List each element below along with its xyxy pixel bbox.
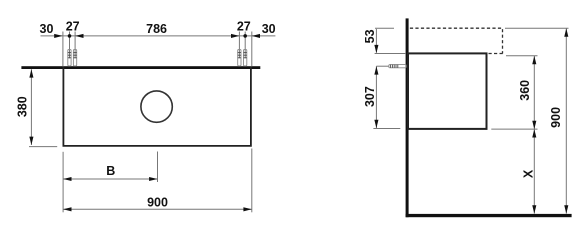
dimension 307 line [375,66,377,128]
dot right screw [243,34,247,38]
drain hole circle [141,91,172,122]
svg-text:307: 307 [363,86,377,107]
svg-text:X: X [521,169,535,178]
svg-text:786: 786 [146,22,167,36]
arrow B right [149,177,157,181]
svg-text:B: B [106,164,115,178]
arrow 360 top [532,56,536,64]
wall anchor [389,65,406,68]
screw right inner [238,49,241,66]
extension line 380 bottom [29,146,57,148]
arrow 360 bottom [532,121,536,129]
dimension 53 line [375,29,377,53]
cabinet body side [408,53,487,128]
extension line below cabinet left [62,152,64,213]
extension line right inner screw [238,32,240,59]
arrow 900 side top [564,28,568,36]
extension line cabinet bottom right [491,128,537,130]
screw left inner [73,49,76,66]
dimension 380 line [30,69,32,145]
arrow 380 top [29,69,33,77]
arrow 307 bottom [374,120,378,128]
floor [406,214,572,217]
wall anchor ext line [376,65,389,67]
dimension 360 line [533,56,535,129]
dashed top edge segment [489,53,504,55]
svg-text:30: 30 [262,22,276,36]
arrow B left [63,177,71,181]
extension line left inner screw [74,32,76,59]
extension line below circle center [157,152,159,183]
svg-text:27: 27 [237,19,251,33]
wall [406,18,409,217]
extension line cabinet top left [375,53,406,55]
cabinet body front [63,67,251,146]
dimension 900 line front [63,208,252,210]
svg-text:900: 900 [147,196,168,210]
svg-text:360: 360 [518,80,532,101]
extension line dashed level left [375,27,394,29]
top dimension line [41,35,276,37]
extension line cabinet top right [506,55,538,57]
svg-text:900: 900 [549,107,563,128]
dot left screw [68,34,72,38]
dimension B line [63,178,157,180]
dimension X line [533,129,535,214]
arrow 900 left [63,207,71,211]
extension line cabinet right edge [251,32,253,67]
dashed countertop outline [410,28,503,53]
arrow 786 right [231,34,239,38]
arrow 30 right [252,34,260,38]
extension line cabinet left edge [62,32,64,67]
extension line dashed level right [505,27,569,29]
svg-text:380: 380 [15,96,29,117]
countertop slab [21,66,260,69]
arrow 53 bottom [374,45,378,53]
arrow 307 top [374,66,378,74]
screw right outer [244,49,247,66]
arrow 30 left [54,34,62,38]
svg-text:27: 27 [66,19,80,33]
arrow X top [532,129,536,137]
arrow 900 right [243,207,251,211]
extension line left outer screw [69,32,71,59]
arrow X bottom [532,205,536,213]
extension line below cabinet right [251,149,253,213]
dimension 900 side line [565,28,567,213]
screw left outer [68,49,71,66]
svg-text:53: 53 [363,29,377,43]
arrow 786 left [75,34,83,38]
extension line cabinet bottom left [373,128,400,130]
arrow 900 side bottom [564,205,568,213]
extension line right outer screw [244,32,246,59]
svg-text:30: 30 [40,22,54,36]
arrow 380 bottom [29,137,33,145]
